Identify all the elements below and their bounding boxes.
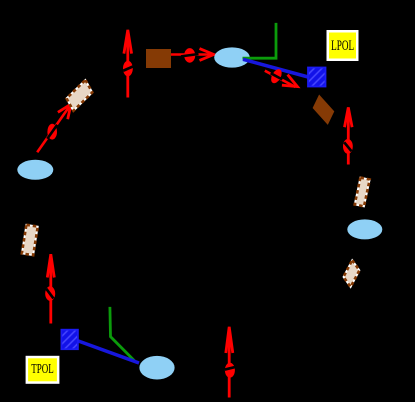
green photon axis (bottom) — [110, 307, 135, 361]
experiment ellipse E2 (right IP) — [347, 219, 382, 239]
spin rotator P1 (dashed tan, right upper) — [355, 178, 370, 207]
TPOL label — [26, 356, 60, 384]
blue photon line to TPOL — [77, 341, 139, 364]
svg-text:TPOL: TPOL — [31, 362, 54, 377]
blue photon line to LPOL — [243, 59, 310, 77]
experiment ellipse E4 (left IP) — [17, 160, 53, 180]
LPOL label — [327, 30, 359, 61]
spin arrow A1 (top-left arc, vertical up) — [123, 30, 133, 98]
spin arrow A3 (longitudinal, down-right after top IP) — [265, 67, 298, 87]
spin rotator P3 (dashed tan, left) — [22, 225, 38, 255]
spin arrow A5 (bottom arc, vertical up) — [225, 327, 235, 398]
experiment ellipse E3 (bottom IP) — [139, 356, 174, 380]
TPOL detector square S2 — [61, 330, 78, 350]
spin arrow A4 (right arc, vertical up) — [343, 107, 353, 164]
spin arrow A2 (horizontal, pointing right into top IP) — [171, 48, 214, 63]
experiment ellipse E1 (top IP, HERMES) — [214, 47, 250, 67]
dipole magnet M1 (brown box left of top IP) — [146, 49, 171, 68]
spin arrow A6 (left lower arc, vertical up) — [45, 254, 55, 323]
spin rotator magnet M2 (brown diamond) — [313, 95, 335, 125]
spin arrow A7 (diagonal up-right toward rotator P4) — [37, 104, 71, 152]
LPOL detector square S1 — [308, 68, 326, 87]
green photon axis (top) — [243, 23, 277, 58]
spin rotator P2 (dashed tan, right lower) — [344, 260, 360, 287]
svg-text:LPOL: LPOL — [331, 38, 354, 54]
spin rotator P4 (dashed tan, upper left) — [67, 80, 93, 111]
